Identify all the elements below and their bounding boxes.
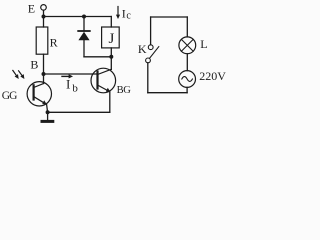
wire BG emitter down xyxy=(109,92,111,112)
wire resistor to node B xyxy=(43,54,45,83)
wire top rail xyxy=(44,16,112,18)
current arrow Ic xyxy=(116,7,120,20)
light arrow 2 xyxy=(19,71,25,79)
wire relay bottom to BG collector xyxy=(110,48,112,70)
wire rail corner down to relay box xyxy=(110,17,112,28)
ground xyxy=(42,112,53,121)
svg-text:B: B xyxy=(30,58,38,72)
label Ib xyxy=(66,76,78,94)
resistor R xyxy=(36,27,48,54)
wire bottom return xyxy=(48,111,110,113)
junction dot diode tap xyxy=(82,15,86,19)
svg-text:E: E xyxy=(28,2,35,16)
junction dot ground node xyxy=(46,110,50,114)
junction dot at E rail xyxy=(42,15,46,19)
wire right-loop right side down to lamp xyxy=(186,17,188,37)
wire GG emitter to ground node xyxy=(47,104,48,112)
svg-text:GG: GG xyxy=(2,90,17,102)
svg-text:I: I xyxy=(122,6,126,20)
diode D (flyback, cathode up) xyxy=(78,17,90,57)
current arrow Ib xyxy=(62,74,73,78)
phototransistor GG xyxy=(27,82,51,106)
relay coil J box xyxy=(102,27,120,48)
wire right-loop bottom xyxy=(148,92,187,94)
lamp L xyxy=(179,37,196,54)
label Ic xyxy=(122,6,132,21)
svg-text:BG: BG xyxy=(117,85,132,96)
wire lamp to source xyxy=(186,54,188,71)
svg-text:I: I xyxy=(66,76,70,91)
wire switch bottom down xyxy=(147,63,149,93)
switch K contact xyxy=(146,45,159,63)
junction dot node B xyxy=(42,72,46,76)
wire base from B to BG xyxy=(44,73,98,75)
junction dot collector node xyxy=(109,55,113,59)
light arrow 1 xyxy=(13,70,19,79)
wire source bottom xyxy=(186,87,188,92)
svg-text:c: c xyxy=(126,10,131,21)
svg-text:b: b xyxy=(72,82,78,94)
svg-text:220V: 220V xyxy=(199,69,226,83)
transistor BG xyxy=(91,68,116,93)
switch K: wire from top rail xyxy=(150,17,152,45)
svg-text:K: K xyxy=(138,42,147,56)
wire right-loop top xyxy=(151,16,188,18)
svg-text:R: R xyxy=(50,35,58,49)
svg-text:L: L xyxy=(200,37,207,51)
svg-text:J: J xyxy=(109,31,115,47)
AC source 220V xyxy=(179,71,196,88)
wire diode bottom to collector node xyxy=(84,56,111,58)
terminal E (open circle) xyxy=(41,5,47,11)
wire from terminal E down to top rail xyxy=(43,10,45,27)
